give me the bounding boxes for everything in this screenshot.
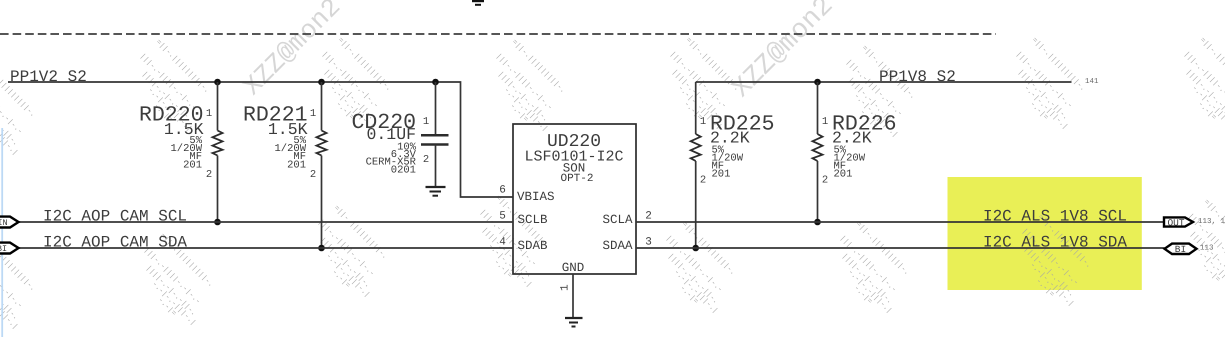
svg-text:I2C_ALS_1V8_SCL: I2C_ALS_1V8_SCL [983,208,1127,226]
svg-text:1: 1 [560,284,572,291]
svg-text:1: 1 [700,116,706,128]
resistor RD225 [691,82,775,248]
wire I2C_ALS_1V8_SCL [636,221,1164,223]
resistor RD220 [139,82,223,222]
resistor RD226 [813,82,897,222]
port BI right [1165,244,1197,256]
wire I2C_AOP_CAM_SDA [18,247,513,249]
resistor RD221 [243,82,327,248]
svg-text:2: 2 [822,175,828,187]
svg-text:201: 201 [834,169,853,181]
wire I2C_AOP_CAM_SCL [18,221,513,223]
yellow highlight [948,177,1142,290]
svg-text:OUT: OUT [1167,217,1184,228]
ground under CD220 [426,187,446,196]
svg-text:1: 1 [822,116,828,128]
junction RD221 top [318,79,325,86]
node PP1V8_S2 rail wire [696,81,1072,83]
svg-text:2: 2 [206,169,212,181]
svg-text:1: 1 [310,108,316,120]
junction RD221 bottom [318,245,325,252]
svg-text:0201: 0201 [391,165,416,177]
svg-text:141: 141 [1085,78,1099,86]
wire IC GND pin [572,274,574,317]
svg-text:IN: IN [0,218,8,228]
svg-text:I2C_AOP_CAM_SDA: I2C_AOP_CAM_SDA [43,234,187,252]
dashed separator line [0,33,996,35]
svg-text:201: 201 [712,169,731,181]
blue edge line [1,128,3,337]
junction CD220 top [432,79,439,86]
junction RD226 bottom [814,219,821,226]
svg-text:1: 1 [206,108,212,120]
svg-text:4: 4 [499,237,506,249]
svg-text:2: 2 [423,154,429,166]
watermark row 2 [0,194,1225,332]
svg-text:OPT-2: OPT-2 [560,173,593,185]
ground under IC [565,318,583,327]
junction RD220 top [214,79,221,86]
svg-text:GND: GND [562,261,585,275]
svg-text:SDAA: SDAA [602,239,633,253]
capacitor CD220 [351,82,448,187]
svg-text:BI: BI [1175,244,1186,255]
port OUT right [1164,217,1193,228]
svg-text:PP1V2_S2: PP1V2_S2 [10,68,87,86]
node PP1V2_S2 rail wire [8,82,513,197]
svg-text:201: 201 [183,160,202,172]
svg-text:6: 6 [499,185,506,197]
svg-text:SCLB: SCLB [518,213,549,227]
svg-text:I2C_ALS_1V8_SDA: I2C_ALS_1V8_SDA [983,234,1127,252]
svg-text:1: 1 [423,116,429,128]
svg-text:113: 113 [1200,244,1214,253]
IC UD220 labels and pin names [517,132,633,275]
IC UD220 LSF0101-I2C box [513,124,636,274]
svg-text:113, 1: 113, 1 [1198,217,1225,226]
svg-text:2: 2 [645,211,652,223]
svg-text:2: 2 [310,169,316,181]
svg-text:I2C_AOP_CAM_SCL: I2C_AOP_CAM_SCL [43,208,187,226]
svg-text:SDAB: SDAB [518,239,549,253]
junction RD225 bottom [692,245,699,252]
port IN left (cut off) [0,217,19,229]
svg-text:5: 5 [499,211,506,223]
svg-text:BI: BI [0,244,7,254]
junction RD220 bottom [214,219,221,226]
svg-text:3: 3 [645,237,652,249]
svg-text:201: 201 [287,160,306,172]
cut ground symbol top [472,1,484,5]
svg-text:SCLA: SCLA [602,213,633,227]
svg-text:PP1V8_S2: PP1V8_S2 [879,68,956,86]
svg-text:VBIAS: VBIAS [517,190,555,204]
wire I2C_ALS_1V8_SDA [636,247,1165,249]
port BI left (cut off) [0,243,19,255]
junction RD226 top [814,79,821,86]
watermark row 1 [0,36,1225,158]
svg-text:2: 2 [700,175,706,187]
